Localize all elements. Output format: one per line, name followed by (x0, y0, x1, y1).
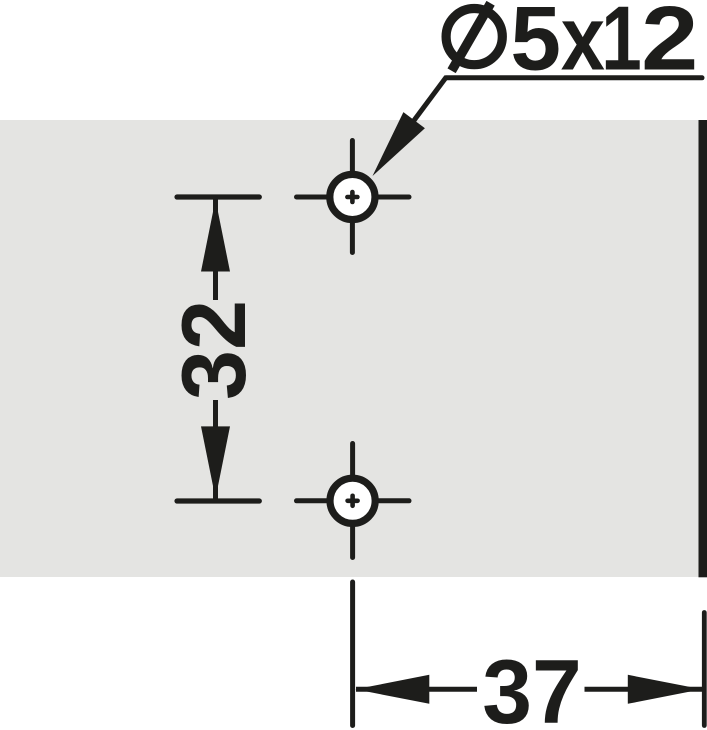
dimension 37: right extension line (702, 613, 707, 726)
panel front edge (thick black bar) (699, 120, 707, 577)
dimension 32: bottom extension line (177, 498, 259, 503)
diameter symbol slash (452, 3, 491, 71)
svg-text:1: 1 (601, 0, 642, 90)
dimension 32: dimension line lower segment (213, 400, 218, 499)
svg-text:x: x (561, 0, 605, 90)
svg-text:37: 37 (482, 642, 582, 730)
top hole: plus mark vertical (350, 192, 355, 202)
dimension 37: left extension line (350, 582, 355, 726)
bottom hole: plus mark horizontal (348, 498, 358, 503)
dimension 32: arrowhead down (201, 426, 230, 498)
top hole: circle (330, 174, 375, 219)
dimension 37: arrowhead right (628, 675, 702, 704)
bottom hole: plus mark vertical (350, 496, 355, 506)
top hole: crosshair vertical (350, 141, 355, 253)
panel (wood side, grey) (0, 120, 699, 577)
dimension 32: arrowhead up (201, 200, 230, 272)
dimension 37: dimension line left segment (356, 687, 477, 692)
top hole: plus mark horizontal (347, 195, 357, 200)
top hole: crosshair horizontal (297, 195, 410, 200)
diameter symbol circle (446, 8, 502, 64)
leader: arrowhead (373, 112, 425, 176)
leader: diagonal line (405, 77, 447, 133)
dimension 32: dimension line upper segment (213, 199, 218, 300)
svg-text:32: 32 (164, 300, 265, 400)
dimension 37: arrowhead left (355, 675, 429, 704)
label "Ø5x12" (446, 0, 698, 90)
leader: horizontal line under label (446, 75, 702, 80)
svg-text:5: 5 (510, 0, 561, 90)
bottom hole: circle (330, 478, 375, 523)
dimension 37: dimension line right segment (585, 687, 703, 692)
dimension 32: top extension line (177, 194, 259, 199)
bottom hole: crosshair horizontal (297, 498, 410, 503)
bottom hole: crosshair vertical (350, 444, 355, 558)
svg-text:2: 2 (641, 0, 698, 90)
